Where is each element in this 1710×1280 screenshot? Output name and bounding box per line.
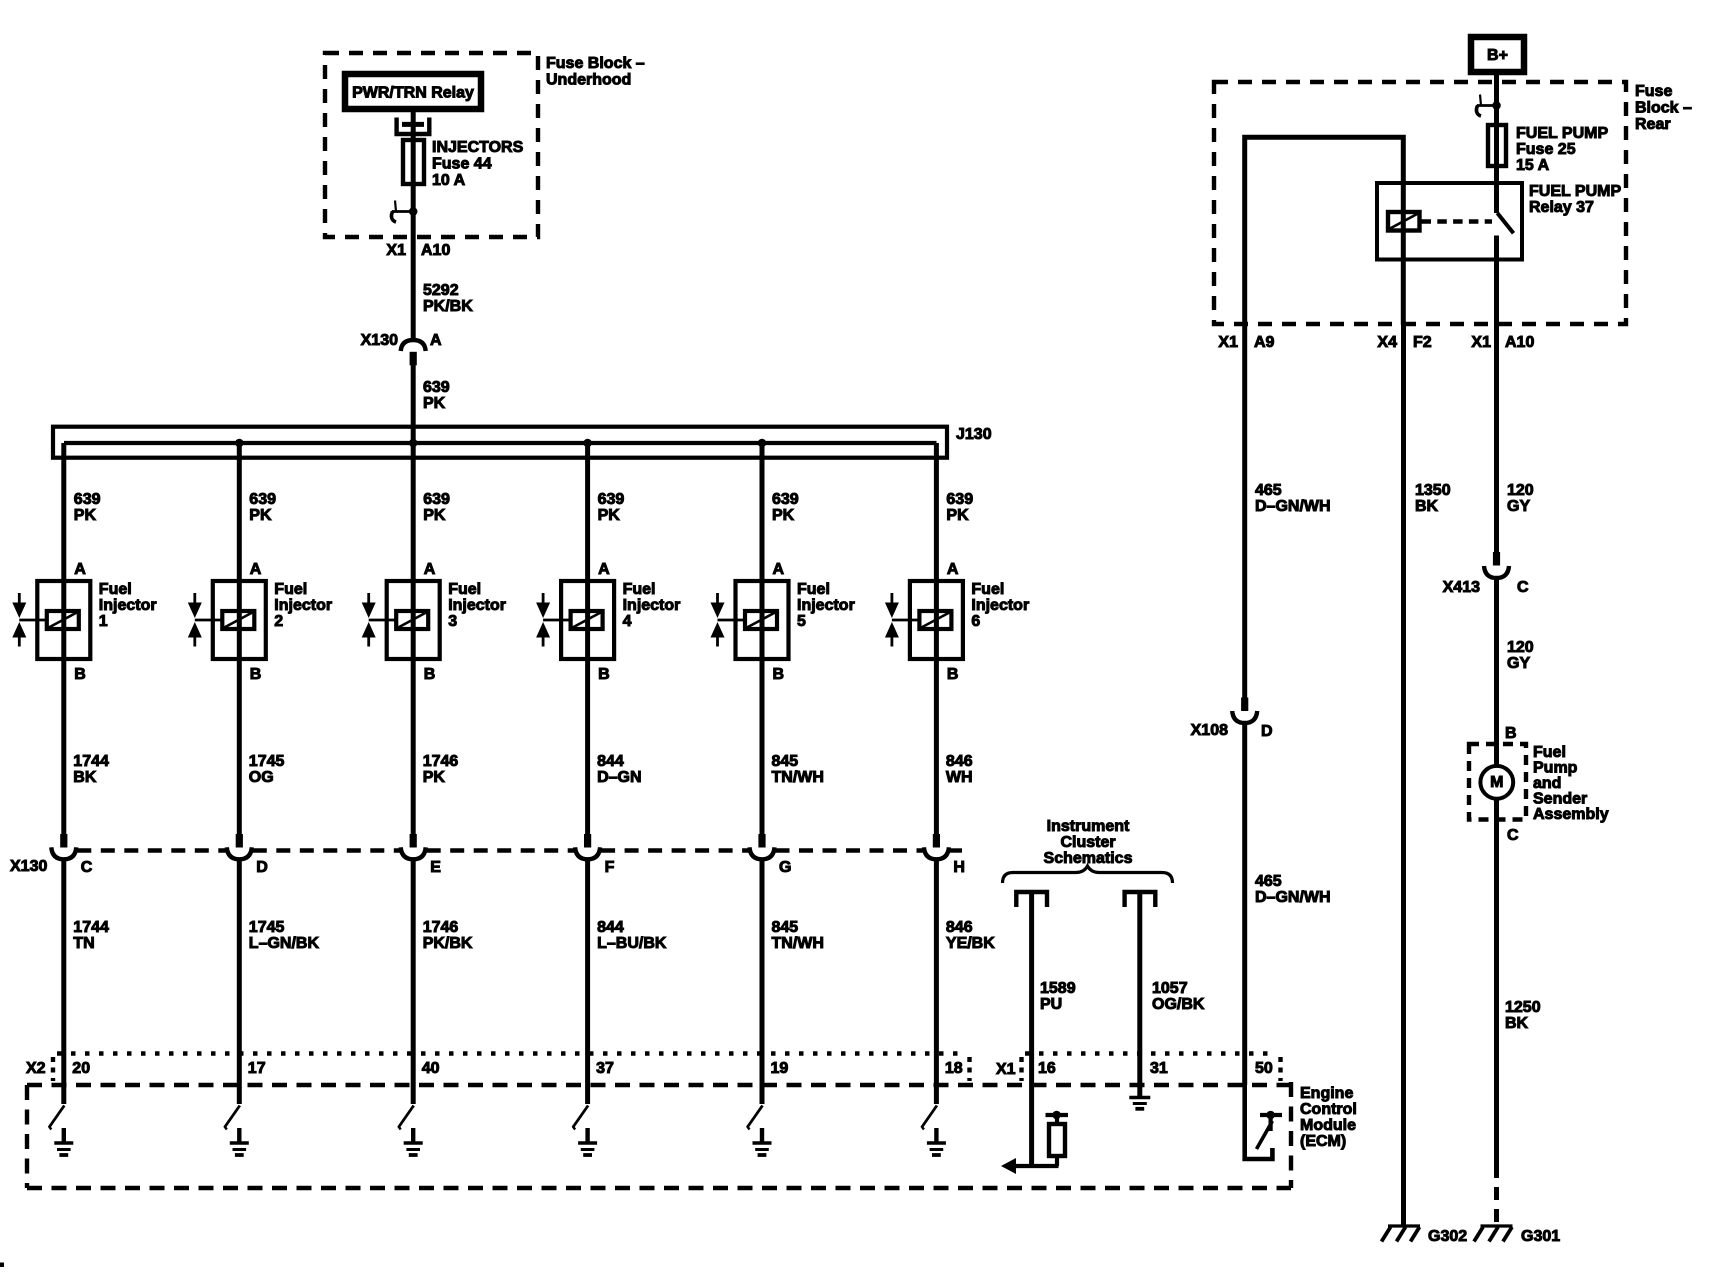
ECM pin 50	[1255, 1060, 1273, 1077]
svg-text:X1: X1	[1218, 334, 1238, 351]
svg-text:20: 20	[72, 1060, 90, 1077]
svg-text:Rear: Rear	[1635, 116, 1671, 133]
fuse F25 FUEL PUMP 15A	[1488, 125, 1506, 166]
wire 846 YE/BK	[936, 859, 995, 1105]
svg-text:A: A	[598, 561, 610, 578]
svg-text:Fuel: Fuel	[448, 581, 481, 598]
svg-text:X4: X4	[1377, 334, 1397, 351]
resistor pull-up ECM pin 16	[1046, 1111, 1069, 1166]
svg-text:1250: 1250	[1505, 999, 1541, 1016]
svg-text:17: 17	[248, 1060, 266, 1077]
wire B+ to relay 37	[1494, 72, 1499, 213]
svg-text:A: A	[250, 561, 262, 578]
svg-text:PU: PU	[1040, 996, 1062, 1013]
ECM internal switch pin 50	[1245, 1085, 1282, 1159]
svg-text:L–BU/BK: L–BU/BK	[597, 935, 667, 952]
wire 1746 PK	[413, 659, 458, 834]
svg-text:1744: 1744	[73, 753, 109, 770]
relay 37 box	[1377, 183, 1522, 260]
connector X130 pin E	[401, 834, 442, 876]
svg-text:1745: 1745	[249, 919, 285, 936]
svg-text:X1: X1	[386, 242, 406, 259]
svg-text:B: B	[1505, 725, 1517, 742]
svg-text:PK: PK	[423, 769, 446, 786]
label fuel injector 1	[99, 581, 157, 630]
svg-text:4: 4	[623, 613, 632, 630]
node X1 A9	[1218, 334, 1274, 351]
fuel injector 3	[362, 581, 440, 659]
svg-text:1350: 1350	[1415, 482, 1451, 499]
svg-text:A10: A10	[421, 242, 450, 259]
connector X130 pin C	[51, 834, 93, 876]
svg-text:B: B	[424, 666, 436, 683]
svg-text:TN/WH: TN/WH	[772, 769, 824, 786]
svg-text:Module: Module	[1300, 1117, 1356, 1134]
pin B fuel pump	[1505, 725, 1517, 742]
pin B injector 4	[598, 666, 610, 683]
ECM pin 17	[248, 1060, 266, 1077]
svg-text:X130: X130	[10, 858, 47, 875]
svg-text:BK: BK	[1505, 1015, 1529, 1032]
svg-text:40: 40	[422, 1060, 440, 1077]
ground G302	[1382, 1226, 1468, 1245]
ground ECM driver 2	[230, 1128, 249, 1155]
svg-text:639: 639	[946, 491, 973, 508]
svg-text:Underhood: Underhood	[546, 72, 631, 89]
wire 845 TN/WH	[762, 859, 824, 1105]
svg-text:OG: OG	[249, 769, 274, 786]
svg-text:639: 639	[249, 491, 276, 508]
svg-text:Pump: Pump	[1533, 760, 1578, 777]
svg-text:FUEL PUMP: FUEL PUMP	[1516, 125, 1608, 142]
wire 1745 OG	[239, 659, 284, 834]
svg-text:Fuel: Fuel	[1533, 744, 1566, 761]
svg-text:845: 845	[772, 919, 799, 936]
wire 844 D–GN	[588, 659, 642, 834]
svg-text:1746: 1746	[423, 753, 459, 770]
svg-text:Fuel: Fuel	[274, 581, 307, 598]
wire relay loop X1 A9	[1245, 137, 1404, 325]
motor M fuel pump	[1480, 744, 1513, 820]
pin B injector 3	[424, 666, 436, 683]
svg-text:PK/BK: PK/BK	[423, 298, 473, 315]
svg-text:TN/WH: TN/WH	[772, 935, 824, 952]
wire 844 L–BU/BK	[588, 859, 667, 1105]
wire 465 D-GN/WH upper	[1245, 325, 1331, 698]
svg-text:PK: PK	[249, 507, 272, 524]
svg-text:Injector: Injector	[448, 597, 506, 614]
svg-text:C: C	[1517, 579, 1529, 596]
wire 1745 L–GN/BK	[239, 859, 319, 1105]
connector X130 pin F	[575, 834, 615, 876]
svg-text:G: G	[779, 859, 791, 876]
svg-text:INJECTORS: INJECTORS	[432, 139, 524, 156]
ECM pin 31	[1150, 1060, 1168, 1077]
wire 465 D-GN/WH lower	[1245, 722, 1331, 1085]
svg-text:465: 465	[1255, 482, 1282, 499]
pin B injector 2	[250, 666, 262, 683]
svg-text:X1: X1	[1471, 334, 1491, 351]
svg-text:A: A	[424, 561, 436, 578]
fuse F44 INJECTORS 10A	[403, 140, 424, 184]
ground ECM driver 3	[404, 1128, 423, 1155]
driver switch ECM 3	[398, 1106, 414, 1130]
wire relay output to X1 A10	[1494, 236, 1499, 326]
svg-text:BK: BK	[1415, 498, 1439, 515]
svg-text:F2: F2	[1413, 334, 1432, 351]
svg-text:YE/BK: YE/BK	[946, 935, 995, 952]
svg-text:Cluster: Cluster	[1060, 834, 1115, 851]
wire 1250 BK dashed to G301	[1494, 1165, 1499, 1226]
ground ECM driver 6	[927, 1128, 946, 1155]
svg-text:Sender: Sender	[1533, 791, 1587, 808]
svg-text:1589: 1589	[1040, 980, 1076, 997]
svg-text:639: 639	[772, 491, 799, 508]
svg-text:H: H	[953, 859, 965, 876]
svg-text:Fuel: Fuel	[623, 581, 656, 598]
svg-text:15 A: 15 A	[1516, 157, 1550, 174]
svg-text:18: 18	[945, 1060, 963, 1077]
node X4 F2	[1377, 334, 1431, 351]
label Fuse Block Underhood	[546, 55, 645, 89]
pin A injector 5	[773, 561, 785, 578]
ground ECM pin 31	[1129, 1098, 1150, 1109]
wire: feed column from PWR/TRN relay to X130	[411, 112, 416, 342]
ECM pin 20	[72, 1060, 90, 1077]
label X130 row	[10, 858, 47, 875]
connector X130 pin H	[924, 834, 965, 876]
svg-text:FUEL PUMP: FUEL PUMP	[1529, 183, 1621, 200]
svg-text:845: 845	[772, 753, 799, 770]
relay 37 coil	[1388, 212, 1420, 231]
svg-text:GY: GY	[1507, 498, 1530, 515]
svg-text:B: B	[74, 666, 86, 683]
pin A injector 1	[74, 561, 86, 578]
svg-text:31: 31	[1150, 1060, 1168, 1077]
svg-text:A: A	[74, 561, 86, 578]
relay 37 link dashed	[1422, 219, 1493, 223]
relay 37 contact switch	[1497, 213, 1513, 233]
pin A injector 6	[947, 561, 959, 578]
svg-text:Injector: Injector	[99, 597, 157, 614]
svg-text:D–GN: D–GN	[597, 769, 641, 786]
svg-text:TN: TN	[73, 935, 94, 952]
svg-text:PK: PK	[598, 507, 621, 524]
svg-text:10 A: 10 A	[432, 172, 466, 189]
fuse block underhood box	[325, 53, 538, 237]
connector X413 pin C	[1443, 552, 1529, 596]
page mark	[0, 1263, 4, 1268]
label fuse 25	[1516, 125, 1608, 174]
label Engine Control Module ECM	[1300, 1085, 1357, 1150]
svg-text:A: A	[773, 561, 785, 578]
wire 1744 BK	[64, 659, 109, 834]
ground ECM driver 1	[54, 1128, 73, 1155]
svg-text:G301: G301	[1521, 1228, 1560, 1245]
svg-text:and: and	[1533, 775, 1561, 792]
wire 5292 PK/BK	[423, 282, 473, 315]
svg-text:Fuse 44: Fuse 44	[432, 156, 492, 173]
svg-text:Control: Control	[1300, 1101, 1357, 1118]
svg-text:A: A	[430, 332, 442, 349]
svg-text:Injector: Injector	[274, 597, 332, 614]
node X1 A10 underhood	[386, 242, 450, 259]
svg-text:19: 19	[771, 1060, 789, 1077]
svg-text:PK: PK	[946, 507, 969, 524]
fuel pump and sender assembly box	[1469, 744, 1526, 820]
label fuel injector 6	[971, 581, 1029, 630]
relay terminal socket	[397, 118, 430, 135]
ECM pin 37	[596, 1060, 614, 1077]
svg-text:(ECM): (ECM)	[1300, 1133, 1346, 1150]
svg-text:B: B	[947, 666, 959, 683]
wire 120 GY lower	[1497, 577, 1534, 744]
ECM internal: signal arrow pin 16	[1001, 1158, 1059, 1174]
svg-text:Fuel: Fuel	[99, 581, 132, 598]
svg-text:OG/BK: OG/BK	[1152, 996, 1205, 1013]
label fuel injector 5	[797, 581, 855, 630]
wire 639 PK branch 5	[758, 439, 799, 581]
svg-text:E: E	[430, 859, 441, 876]
driver switch ECM 4	[573, 1106, 589, 1130]
wire through relay coil to X4 F2	[1401, 183, 1406, 325]
svg-text:PK: PK	[74, 507, 97, 524]
svg-text:120: 120	[1507, 639, 1534, 656]
splice pack J130	[53, 426, 992, 458]
ECM dashed box	[27, 1082, 1291, 1188]
connector X130 pin A	[361, 332, 442, 365]
svg-text:WH: WH	[946, 769, 973, 786]
svg-text:M: M	[1490, 774, 1503, 791]
wire 1057 OG/BK	[1140, 892, 1205, 1097]
node X1 A10	[1471, 334, 1534, 351]
pin A injector 4	[598, 561, 610, 578]
svg-text:5: 5	[797, 613, 806, 630]
svg-text:Block –: Block –	[1635, 100, 1692, 117]
svg-text:846: 846	[946, 753, 973, 770]
ground ECM driver 5	[753, 1128, 772, 1155]
ground ECM driver 4	[578, 1128, 597, 1155]
pin B injector 5	[773, 666, 785, 683]
pin C fuel pump	[1507, 827, 1519, 844]
svg-text:37: 37	[596, 1060, 614, 1077]
svg-text:J130: J130	[956, 426, 992, 443]
pin A injector 3	[424, 561, 436, 578]
svg-text:PK: PK	[772, 507, 795, 524]
pin B injector 6	[947, 666, 959, 683]
svg-text:Instrument: Instrument	[1047, 818, 1130, 835]
svg-text:120: 120	[1507, 482, 1534, 499]
svg-text:1745: 1745	[249, 753, 285, 770]
fuel injector 6	[885, 581, 963, 659]
fuel injector 1	[12, 581, 90, 659]
brace instrument cluster	[1003, 866, 1173, 883]
wire 639 PK branch 2	[235, 439, 276, 581]
ECM pin 16	[1038, 1060, 1056, 1077]
fuse block rear box	[1214, 82, 1626, 324]
svg-text:50: 50	[1255, 1060, 1273, 1077]
svg-text:639: 639	[74, 491, 101, 508]
svg-text:Fuel: Fuel	[797, 581, 830, 598]
label X2	[26, 1060, 46, 1077]
wire 639 PK branch 4	[583, 439, 624, 581]
svg-text:Injector: Injector	[797, 597, 855, 614]
svg-text:1057: 1057	[1152, 980, 1188, 997]
wire 639 PK branch 1	[64, 443, 101, 581]
driver switch ECM 5	[747, 1106, 763, 1130]
svg-text:2: 2	[274, 613, 283, 630]
wire 1350 BK	[1404, 325, 1451, 1226]
svg-text:1: 1	[99, 613, 108, 630]
wire 1589 PU	[1032, 892, 1076, 1166]
ECM pin 19	[771, 1060, 789, 1077]
svg-text:X413: X413	[1443, 579, 1480, 596]
terminal to instrument cluster 2	[1125, 892, 1156, 907]
driver switch ECM 2	[224, 1106, 240, 1130]
connector X108 pin D	[1191, 698, 1273, 741]
svg-text:D: D	[256, 859, 268, 876]
svg-text:B+: B+	[1487, 47, 1508, 64]
driver switch ECM 1	[49, 1106, 65, 1130]
svg-text:639: 639	[423, 379, 450, 396]
svg-text:D: D	[1261, 723, 1273, 740]
label fuel pump relay 37	[1529, 183, 1621, 216]
connector row X2 dotted line	[53, 1054, 970, 1082]
svg-text:Relay 37: Relay 37	[1529, 199, 1594, 216]
label fuel pump assembly	[1533, 744, 1609, 823]
relay K: PWR/TRN Relay box	[345, 74, 481, 109]
svg-text:Injector: Injector	[623, 597, 681, 614]
wire 846 WH	[936, 659, 972, 834]
svg-text:X130: X130	[361, 332, 398, 349]
connector row X1 dotted line	[1022, 1054, 1281, 1082]
connector X130 pin D	[227, 834, 268, 876]
svg-text:PK: PK	[423, 507, 446, 524]
driver switch ECM 6	[921, 1106, 937, 1130]
svg-text:X1: X1	[996, 1061, 1016, 1078]
svg-text:X108: X108	[1191, 722, 1228, 739]
fusible hook symbol underhood	[391, 201, 417, 223]
wire 120 GY upper	[1497, 325, 1534, 552]
svg-text:B: B	[773, 666, 785, 683]
svg-text:G302: G302	[1428, 1228, 1467, 1245]
pin B injector 1	[74, 666, 86, 683]
svg-text:844: 844	[597, 753, 624, 770]
svg-text:PK: PK	[423, 395, 446, 412]
wire 1744 TN	[64, 859, 109, 1105]
svg-text:A10: A10	[1505, 334, 1534, 351]
svg-text:D–GN/WH: D–GN/WH	[1255, 498, 1331, 515]
svg-text:639: 639	[598, 491, 625, 508]
svg-text:844: 844	[597, 919, 624, 936]
svg-text:6: 6	[971, 613, 980, 630]
wire 639 PK branch 3	[409, 439, 450, 581]
svg-text:Assembly: Assembly	[1533, 806, 1609, 823]
wire 639 PK branch 6	[936, 443, 973, 581]
svg-text:3: 3	[448, 613, 457, 630]
label X1 ECM	[996, 1061, 1016, 1078]
label fuel injector 2	[274, 581, 332, 630]
svg-text:16: 16	[1038, 1060, 1056, 1077]
svg-text:B: B	[250, 666, 262, 683]
wire 1250 BK solid	[1497, 820, 1541, 1166]
fusible hook symbol rear	[1476, 95, 1500, 117]
label Fuse Block Rear	[1635, 83, 1692, 133]
svg-text:L–GN/BK: L–GN/BK	[249, 935, 320, 952]
wire 1746 PK/BK	[413, 859, 473, 1105]
connector row X130 dashed line	[77, 848, 962, 852]
svg-text:Injector: Injector	[971, 597, 1029, 614]
svg-text:C: C	[1507, 827, 1519, 844]
svg-text:846: 846	[946, 919, 973, 936]
svg-text:PWR/TRN Relay: PWR/TRN Relay	[352, 85, 474, 102]
label Instrument Cluster Schematics	[1044, 818, 1133, 867]
ECM pin 18	[945, 1060, 963, 1077]
connector X130 pin G	[750, 834, 792, 876]
svg-text:639: 639	[423, 491, 450, 508]
svg-text:BK: BK	[73, 769, 97, 786]
terminal to instrument cluster 1	[1016, 892, 1047, 907]
svg-text:Fuse: Fuse	[1635, 83, 1672, 100]
svg-text:PK/BK: PK/BK	[423, 935, 473, 952]
svg-text:A: A	[947, 561, 959, 578]
svg-text:B: B	[598, 666, 610, 683]
battery feed B+	[1471, 37, 1524, 72]
wire 845 TN/WH	[762, 659, 824, 834]
wire 639 PK feed	[413, 365, 450, 443]
label fuel injector 3	[448, 581, 506, 630]
svg-text:Fuel: Fuel	[971, 581, 1004, 598]
label fuse 44	[432, 139, 524, 189]
ground G301	[1474, 1226, 1560, 1245]
ECM pin 40	[422, 1060, 440, 1077]
svg-text:D–GN/WH: D–GN/WH	[1255, 889, 1331, 906]
svg-text:Engine: Engine	[1300, 1085, 1353, 1102]
label fuel injector 4	[623, 581, 681, 630]
pin A injector 2	[250, 561, 262, 578]
fuel injector 4	[536, 581, 614, 659]
svg-text:5292: 5292	[423, 282, 459, 299]
svg-text:X2: X2	[26, 1060, 46, 1077]
svg-text:465: 465	[1255, 873, 1282, 890]
svg-text:Fuse Block –: Fuse Block –	[546, 55, 645, 72]
svg-text:A9: A9	[1254, 334, 1275, 351]
svg-text:GY: GY	[1507, 655, 1530, 672]
svg-text:Fuse 25: Fuse 25	[1516, 141, 1576, 158]
svg-text:C: C	[81, 859, 93, 876]
svg-text:F: F	[605, 859, 615, 876]
svg-text:1746: 1746	[423, 919, 459, 936]
fuel injector 5	[711, 581, 789, 659]
svg-text:1744: 1744	[73, 919, 109, 936]
fuel injector 2	[188, 581, 266, 659]
